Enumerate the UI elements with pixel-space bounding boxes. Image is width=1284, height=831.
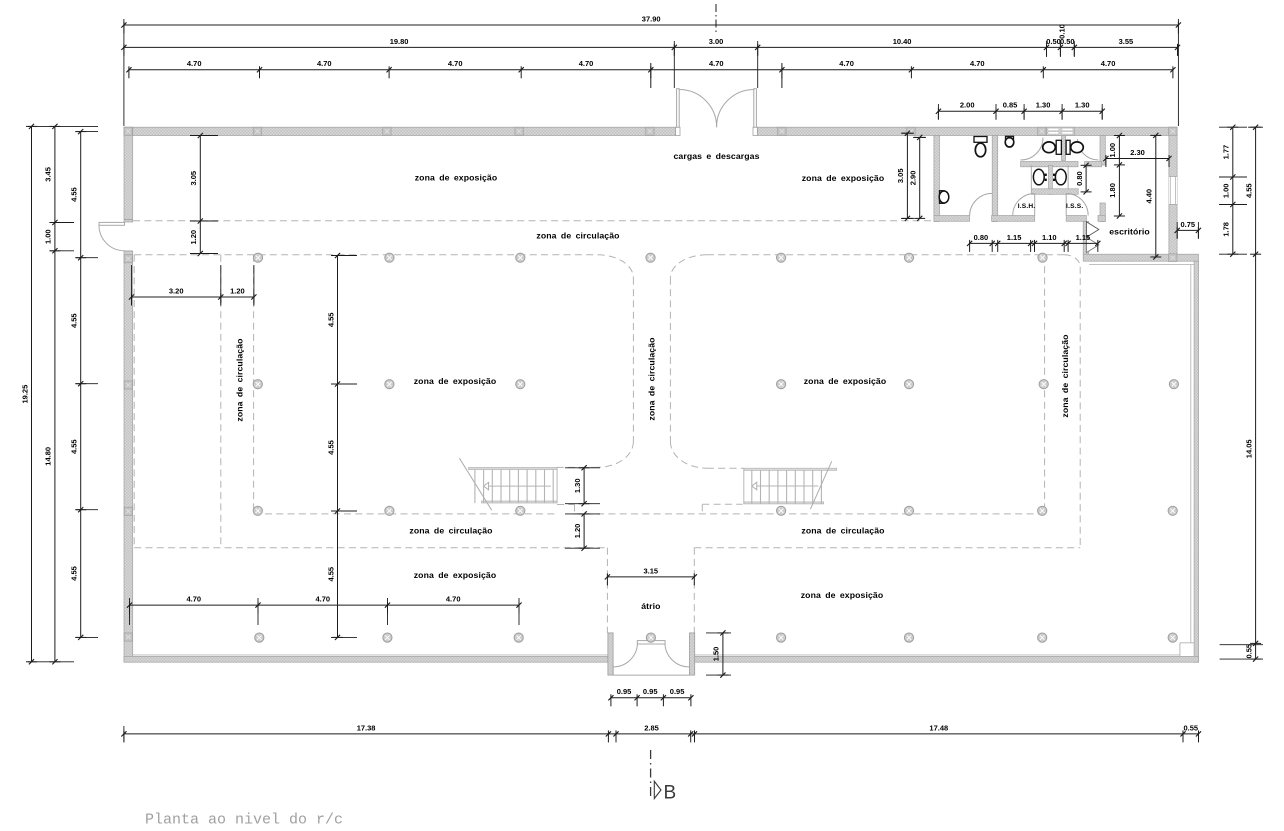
svg-text:0.80: 0.80 bbox=[974, 233, 989, 242]
svg-text:4.70: 4.70 bbox=[446, 595, 461, 604]
svg-text:17.38: 17.38 bbox=[357, 723, 376, 732]
svg-text:0.55: 0.55 bbox=[1244, 644, 1253, 659]
svg-text:4.70: 4.70 bbox=[709, 59, 724, 68]
svg-text:4.55: 4.55 bbox=[70, 566, 79, 581]
svg-text:zona de circulação: zona de circulação bbox=[646, 337, 656, 420]
svg-text:4.40: 4.40 bbox=[1145, 189, 1154, 204]
svg-text:4.70: 4.70 bbox=[186, 595, 201, 604]
svg-text:1.00: 1.00 bbox=[1222, 183, 1231, 198]
svg-text:0.85: 0.85 bbox=[1003, 101, 1018, 110]
svg-text:0.95: 0.95 bbox=[643, 687, 658, 696]
svg-text:zona de exposição: zona de exposição bbox=[802, 173, 885, 183]
svg-text:2.30: 2.30 bbox=[1130, 148, 1145, 157]
svg-text:1.15: 1.15 bbox=[1007, 233, 1022, 242]
svg-text:0.55: 0.55 bbox=[1183, 723, 1198, 732]
svg-text:1.80: 1.80 bbox=[1108, 183, 1117, 198]
svg-text:0.95: 0.95 bbox=[670, 687, 685, 696]
svg-text:Planta ao nivel do r/c: Planta ao nivel do r/c bbox=[145, 812, 343, 829]
svg-text:I.S.S.: I.S.S. bbox=[1066, 203, 1083, 210]
svg-text:1.00: 1.00 bbox=[44, 229, 53, 244]
svg-text:10.40: 10.40 bbox=[893, 37, 912, 46]
svg-text:1.30: 1.30 bbox=[573, 478, 582, 493]
svg-text:17.48: 17.48 bbox=[929, 723, 948, 732]
svg-text:4.70: 4.70 bbox=[448, 59, 463, 68]
svg-text:zona de exposição: zona de exposição bbox=[414, 376, 497, 386]
svg-text:3.55: 3.55 bbox=[1119, 37, 1134, 46]
svg-text:cargas e descargas: cargas e descargas bbox=[673, 151, 759, 161]
svg-text:1.15: 1.15 bbox=[1076, 233, 1091, 242]
svg-text:zona de circulação: zona de circulação bbox=[409, 526, 492, 536]
svg-text:zona de exposição: zona de exposição bbox=[415, 173, 498, 183]
svg-text:zona de circulação: zona de circulação bbox=[801, 526, 884, 536]
svg-text:19.25: 19.25 bbox=[20, 385, 29, 404]
svg-text:4.70: 4.70 bbox=[187, 59, 202, 68]
svg-text:4.55: 4.55 bbox=[70, 313, 79, 328]
svg-text:4.55: 4.55 bbox=[326, 567, 335, 582]
svg-text:4.55: 4.55 bbox=[1244, 183, 1253, 198]
svg-text:4.55: 4.55 bbox=[326, 440, 335, 455]
svg-text:4.70: 4.70 bbox=[317, 59, 332, 68]
svg-text:3.05: 3.05 bbox=[896, 168, 905, 183]
svg-text:4.70: 4.70 bbox=[315, 595, 330, 604]
svg-text:4.55: 4.55 bbox=[70, 187, 79, 202]
svg-text:1.20: 1.20 bbox=[573, 524, 582, 539]
svg-text:3.15: 3.15 bbox=[643, 566, 658, 575]
svg-text:14.80: 14.80 bbox=[44, 447, 53, 466]
svg-text:átrio: átrio bbox=[641, 601, 660, 611]
svg-text:0.75: 0.75 bbox=[1180, 220, 1195, 229]
svg-text:3.05: 3.05 bbox=[189, 171, 198, 186]
svg-text:zona de exposição: zona de exposição bbox=[804, 376, 887, 386]
svg-text:1.10: 1.10 bbox=[1042, 233, 1057, 242]
svg-text:4.55: 4.55 bbox=[326, 312, 335, 327]
svg-text:zona de circulação: zona de circulação bbox=[235, 338, 245, 421]
svg-text:0.10: 0.10 bbox=[1058, 24, 1067, 39]
svg-text:1.30: 1.30 bbox=[1036, 101, 1051, 110]
svg-text:3.45: 3.45 bbox=[44, 167, 53, 182]
svg-text:2.85: 2.85 bbox=[644, 723, 659, 732]
svg-text:B: B bbox=[663, 782, 676, 803]
svg-text:19.80: 19.80 bbox=[390, 37, 409, 46]
svg-text:0.80: 0.80 bbox=[1075, 171, 1084, 186]
svg-text:2.90: 2.90 bbox=[909, 171, 918, 186]
svg-text:0.95: 0.95 bbox=[617, 687, 632, 696]
svg-text:I.S.H.: I.S.H. bbox=[1018, 203, 1036, 210]
svg-text:37.90: 37.90 bbox=[642, 14, 661, 23]
svg-text:1.78: 1.78 bbox=[1222, 222, 1231, 237]
svg-text:1.50: 1.50 bbox=[712, 647, 721, 662]
svg-text:1.77: 1.77 bbox=[1222, 145, 1231, 160]
svg-text:1.20: 1.20 bbox=[230, 286, 245, 295]
svg-text:escritório: escritório bbox=[1109, 227, 1150, 237]
svg-text:4.55: 4.55 bbox=[70, 439, 79, 454]
svg-text:zona de exposição: zona de exposição bbox=[414, 570, 497, 580]
svg-text:zona de exposição: zona de exposição bbox=[801, 590, 884, 600]
svg-text:zona de circulação: zona de circulação bbox=[536, 231, 619, 241]
svg-text:3.20: 3.20 bbox=[169, 286, 184, 295]
svg-text:2.00: 2.00 bbox=[960, 101, 975, 110]
svg-text:4.70: 4.70 bbox=[1101, 59, 1116, 68]
svg-text:4.70: 4.70 bbox=[970, 59, 985, 68]
svg-text:14.05: 14.05 bbox=[1244, 439, 1253, 458]
svg-text:1.20: 1.20 bbox=[189, 230, 198, 245]
svg-text:3.00: 3.00 bbox=[709, 37, 724, 46]
svg-text:zona de circulação: zona de circulação bbox=[1060, 334, 1070, 417]
svg-text:1.30: 1.30 bbox=[1075, 101, 1090, 110]
svg-text:4.70: 4.70 bbox=[839, 59, 854, 68]
svg-text:4.70: 4.70 bbox=[579, 59, 594, 68]
svg-text:1.00: 1.00 bbox=[1108, 143, 1117, 158]
